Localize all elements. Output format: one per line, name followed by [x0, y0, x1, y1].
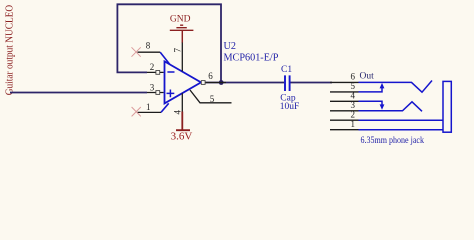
svg-text:GND: GND — [170, 14, 191, 24]
wire output to C1 — [204, 82, 284, 84]
svg-text:8: 8 — [146, 40, 151, 50]
connector J1 6.35mm phone jack — [330, 72, 451, 145]
svg-text:4: 4 — [351, 91, 356, 101]
pin 2 — [330, 119, 359, 121]
wire guitar input to pin3 — [10, 92, 147, 94]
pin 3 — [330, 110, 359, 112]
svg-text:3.6V: 3.6V — [171, 131, 193, 143]
pin 5 — [330, 91, 359, 93]
svg-text:1: 1 — [146, 102, 151, 112]
svg-text:6: 6 — [351, 72, 356, 82]
pin 4 — [330, 100, 359, 102]
pin 6 — [330, 81, 359, 83]
op-amp plus sign — [167, 90, 175, 98]
power port 3.6V — [171, 112, 193, 143]
ring contact from pin3 — [359, 102, 423, 112]
op-amp minus sign — [167, 71, 174, 73]
svg-text:1: 1 — [351, 119, 356, 129]
svg-text:6.35mm phone jack: 6.35mm phone jack — [361, 135, 425, 145]
pin 3 — [147, 92, 164, 94]
svg-text:Out: Out — [360, 72, 375, 82]
svg-text:2: 2 — [150, 62, 155, 72]
wire C1 to jack pin6 — [291, 82, 333, 84]
pin 1 — [330, 129, 359, 131]
svg-text:7: 7 — [173, 48, 183, 53]
junction at op-amp output — [219, 80, 224, 85]
wire feedback output to inverting input — [117, 4, 221, 82]
pin 7 vertical — [181, 42, 183, 71]
svg-text:C1: C1 — [281, 65, 292, 75]
pin 1 stub — [138, 111, 162, 113]
shunt arm pin5 with arrow — [359, 87, 383, 92]
pin 6 output — [205, 82, 227, 84]
op-amp U2 triangle — [165, 61, 202, 103]
pin 8 stub — [138, 51, 161, 53]
svg-text:Guitar output NUCLEO: Guitar output NUCLEO — [5, 4, 16, 95]
svg-text:MCP601-E/P: MCP601-E/P — [224, 52, 279, 63]
svg-text:U2: U2 — [224, 41, 236, 52]
pin 4 vertical — [181, 93, 183, 112]
no-connect X pin 1 — [132, 107, 141, 116]
svg-text:10uF: 10uF — [280, 102, 300, 112]
capacitor C1 — [285, 75, 290, 91]
pin 2 — [147, 71, 164, 73]
svg-text:2: 2 — [351, 109, 356, 119]
sleeve wire pin1 — [359, 129, 444, 131]
power port GND — [170, 14, 194, 42]
jack body sleeve rectangle — [443, 81, 451, 132]
svg-text:4: 4 — [173, 110, 183, 115]
no-connect X pin 8 — [132, 47, 141, 56]
pin 5 stub — [190, 90, 232, 103]
tip contact from pin6 — [359, 81, 433, 93]
svg-text:3: 3 — [150, 82, 155, 92]
sleeve wire pin2 — [359, 119, 444, 121]
svg-text:6: 6 — [208, 71, 213, 81]
svg-text:5: 5 — [210, 94, 215, 104]
shunt arm pin4 with arrow — [359, 101, 383, 106]
